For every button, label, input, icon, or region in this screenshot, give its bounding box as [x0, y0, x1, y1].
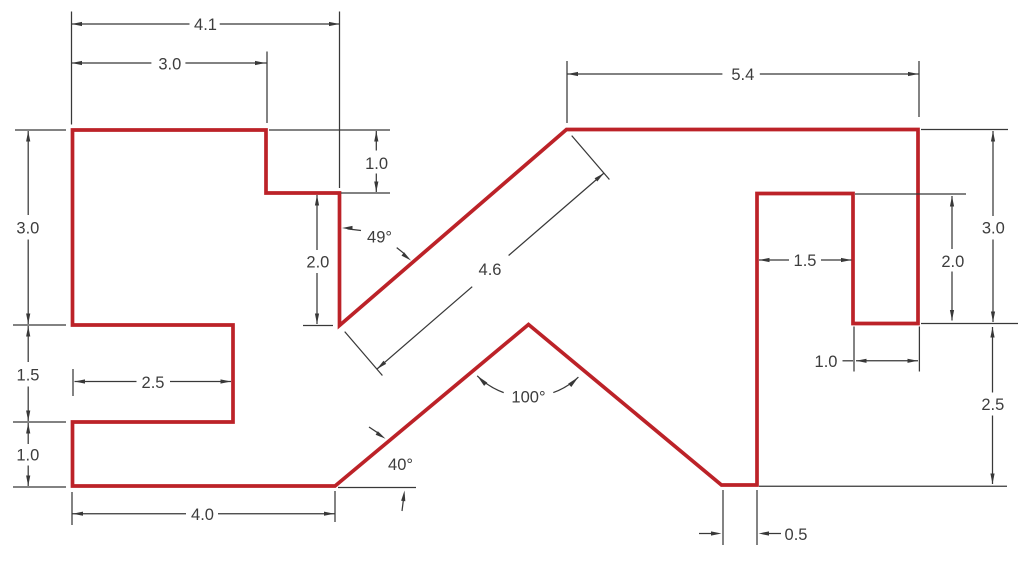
svg-text:2.5: 2.5: [981, 396, 1004, 414]
dimension 2.5 right: [759, 324, 1018, 487]
dimension 1.0 notch: [815, 327, 920, 372]
svg-text:4.1: 4.1: [194, 16, 217, 34]
svg-text:5.4: 5.4: [731, 66, 754, 84]
svg-text:0.5: 0.5: [785, 526, 808, 544]
svg-text:1.0: 1.0: [16, 447, 39, 465]
dimension 1.5 left: [13, 326, 66, 422]
svg-text:3.0: 3.0: [158, 55, 181, 73]
svg-text:49°: 49°: [367, 229, 392, 247]
dimension 2.0 step: [303, 195, 333, 326]
svg-text:4.6: 4.6: [479, 261, 502, 279]
dimension 4.6 diagonal: [345, 136, 610, 376]
dimension 4.0 bottom: [72, 491, 335, 525]
svg-text:2.0: 2.0: [941, 253, 964, 271]
dimension 3.0 right: [921, 130, 1008, 323]
dimension 1.0 step: [269, 130, 390, 193]
part outline (red profile): [73, 130, 919, 487]
dimension 5.4 top: [567, 61, 919, 123]
svg-text:3.0: 3.0: [982, 220, 1005, 238]
svg-text:2.0: 2.0: [306, 254, 329, 272]
dimension 4.1 top: [72, 12, 340, 189]
dimension 1.5 notch: [759, 252, 852, 270]
svg-text:1.5: 1.5: [17, 367, 40, 385]
svg-text:40°: 40°: [388, 456, 413, 474]
svg-text:4.0: 4.0: [191, 506, 214, 524]
svg-text:1.0: 1.0: [815, 353, 838, 371]
dimension 2.0 right: [855, 194, 966, 321]
svg-text:1.0: 1.0: [365, 155, 388, 173]
angle 100 deg: [477, 376, 578, 407]
dimension 3.0 top: [72, 52, 268, 124]
svg-text:1.5: 1.5: [794, 252, 817, 270]
svg-text:100°: 100°: [511, 389, 545, 407]
angle 49 deg: [342, 226, 411, 261]
dimension 0.5 bottom: [699, 490, 807, 545]
svg-text:3.0: 3.0: [16, 219, 39, 237]
dimension 2.5 slot: [73, 369, 231, 396]
angle 40 deg: [338, 427, 416, 511]
dimension 1.0 left: [13, 423, 66, 487]
dimension 3.0 left: [13, 130, 66, 325]
svg-text:2.5: 2.5: [142, 374, 165, 392]
